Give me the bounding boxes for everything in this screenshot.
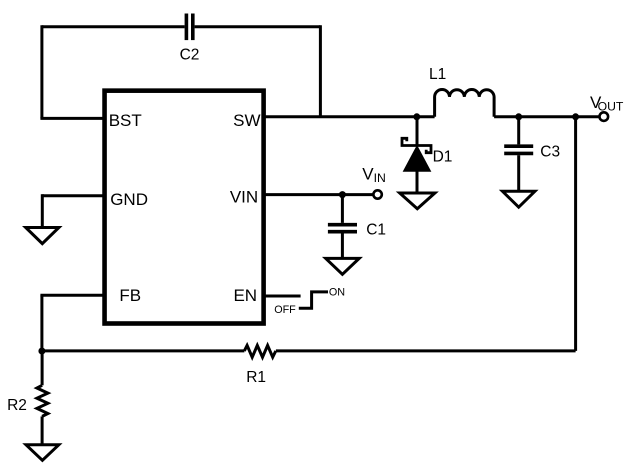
wire R1 left segment xyxy=(42,349,245,352)
ground below D1 xyxy=(400,193,435,209)
wire EN pin xyxy=(264,295,301,298)
node junction FB/R1/R2 xyxy=(38,348,45,355)
wire SW rail xyxy=(264,115,435,118)
wire BST pin xyxy=(40,117,104,120)
terminal VOUT xyxy=(600,112,609,121)
wire VIN pin xyxy=(264,193,373,196)
wire C2 top rail left segment xyxy=(42,25,185,28)
svg-text:C1: C1 xyxy=(366,222,386,239)
wire FB pin xyxy=(40,294,104,297)
svg-text:GND: GND xyxy=(110,190,148,209)
capacitor C3 xyxy=(504,146,533,153)
svg-text:VIN: VIN xyxy=(362,165,385,186)
svg-text:FB: FB xyxy=(119,286,141,305)
svg-text:BST: BST xyxy=(109,111,142,130)
wire R2 top lead xyxy=(41,351,44,385)
wire C3 top lead xyxy=(517,117,520,145)
inductor L1 xyxy=(435,89,495,116)
svg-text:C2: C2 xyxy=(180,46,200,63)
node junction C3 xyxy=(515,113,522,120)
wire left vertical BST loop xyxy=(40,25,43,118)
svg-text:L1: L1 xyxy=(429,66,446,83)
svg-text:OFF: OFF xyxy=(274,304,296,316)
wire FB drop to feedback node xyxy=(40,295,43,351)
wire right vertical VOUT to R1 xyxy=(574,117,577,351)
diode D1 triangle xyxy=(404,147,429,171)
wire from L1 to VOUT terminal xyxy=(494,115,598,118)
wire R1 right segment xyxy=(276,349,576,352)
wire GND pin xyxy=(42,194,104,197)
svg-text:R2: R2 xyxy=(7,397,27,414)
wire D1 bottom lead xyxy=(416,171,419,193)
svg-text:VIN: VIN xyxy=(230,188,258,207)
svg-text:D1: D1 xyxy=(433,148,453,165)
ground below C3 xyxy=(503,191,535,207)
ground at GND pin xyxy=(26,228,59,244)
wire C1 top lead xyxy=(341,195,344,223)
svg-text:SW: SW xyxy=(233,111,260,130)
switch OFF-ON step xyxy=(299,292,328,308)
svg-text:EN: EN xyxy=(233,286,257,305)
IC U1 body xyxy=(105,91,264,324)
svg-text:ON: ON xyxy=(329,287,345,299)
wire C2 top rail right segment xyxy=(195,25,321,28)
terminal VIN xyxy=(373,190,381,198)
node junction VOUT branch xyxy=(572,113,579,120)
wire GND drop xyxy=(41,194,44,227)
wire right vertical from C2 to SW rail xyxy=(319,25,322,117)
capacitor C2 xyxy=(186,14,192,41)
ground below C1 xyxy=(326,258,360,274)
svg-text:VOUT: VOUT xyxy=(590,93,624,114)
svg-text:R1: R1 xyxy=(246,369,266,386)
wire D1 top lead xyxy=(416,117,419,146)
ground below R2 xyxy=(26,445,59,461)
resistor R1 xyxy=(244,345,275,357)
node junction VIN/C1 xyxy=(339,191,346,198)
svg-text:C3: C3 xyxy=(540,143,560,160)
wire R2 bottom lead xyxy=(41,416,44,444)
node junction SW/D1 xyxy=(413,113,420,120)
wire C1 bottom lead xyxy=(341,234,344,259)
resistor R2 xyxy=(37,385,48,416)
diode D1 schottky cathode xyxy=(402,138,431,152)
capacitor C1 xyxy=(328,225,357,232)
wire C3 bottom lead xyxy=(517,155,520,191)
